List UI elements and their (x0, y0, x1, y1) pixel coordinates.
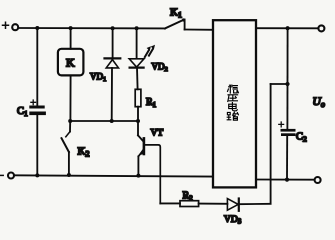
svg-text:R1: R1 (146, 97, 157, 109)
hanzi lu (227, 112, 238, 120)
node junction C1 bottom (35, 173, 39, 177)
wire C1 branch lower (36, 115, 38, 175)
wire C2 vertical (286, 28, 288, 129)
node junction top VD1 (111, 26, 115, 30)
node junction K2 bottom (67, 173, 71, 177)
diode VD3 (227, 199, 270, 211)
node junction VT emitter bottom (136, 174, 140, 178)
resistor R1 (135, 89, 141, 106)
wire R2 to VD3 (199, 203, 228, 205)
svg-text:K: K (66, 56, 75, 70)
wire bottom rail (14, 175, 213, 176)
wire output minus (256, 179, 314, 181)
svg-text:K1: K1 (170, 7, 182, 20)
svg-text:C1: C1 (17, 106, 28, 118)
node junction VD1 base rail (110, 119, 114, 123)
svg-text:VT: VT (151, 129, 164, 139)
svg-text:Uo: Uo (313, 96, 325, 109)
diode VD1 (105, 28, 121, 121)
wire feedback vertical (270, 84, 272, 204)
svg-text:VD2: VD2 (152, 62, 168, 74)
switch K2 (62, 121, 71, 175)
hanzi wen (228, 85, 239, 93)
LED VD2 (129, 28, 144, 89)
hanzi ya (228, 95, 238, 102)
wire C1 branch upper (36, 28, 38, 105)
node junction top C1 (35, 26, 39, 30)
capacitor C1 (29, 100, 46, 115)
minus terminal bottom-left (0, 173, 14, 179)
node junction top K (69, 26, 73, 30)
LED emission arrows (145, 45, 155, 57)
svg-text:R2: R2 (183, 191, 194, 203)
node junction feedback tap (285, 82, 289, 86)
relay coil K (58, 49, 84, 76)
+ terminal top-left (3, 22, 19, 30)
hanzi dian (229, 103, 238, 111)
wire base rail (70, 120, 138, 122)
svg-text:C2: C2 (296, 132, 307, 144)
transistor VT (138, 121, 160, 203)
node junction R1 base rail (136, 119, 140, 123)
svg-text:VD1: VD1 (90, 72, 106, 84)
node junction base rail left (68, 119, 72, 123)
wire R1 to node (137, 107, 139, 121)
wire K coil to node (69, 75, 71, 121)
wire output plus (256, 27, 318, 29)
wire collector row left (160, 202, 180, 204)
resistor R2 (180, 201, 199, 207)
node junction output plus C2 (286, 26, 290, 30)
terminal output minus (315, 177, 321, 183)
wire K coil branch upper (70, 28, 72, 49)
capacitor C2 (279, 122, 296, 136)
switch K1 (165, 18, 213, 29)
svg-text:K2: K2 (78, 146, 90, 159)
svg-text:VD3: VD3 (224, 215, 242, 226)
wire C2 lower (286, 136, 288, 180)
wire top rail (19, 27, 165, 29)
node junction top VD2 (135, 26, 139, 30)
node junction output minus C2 (285, 178, 289, 182)
terminal output plus (318, 25, 324, 31)
regulator box 稳压电路 (213, 20, 256, 187)
wire feedback stub (271, 83, 288, 85)
